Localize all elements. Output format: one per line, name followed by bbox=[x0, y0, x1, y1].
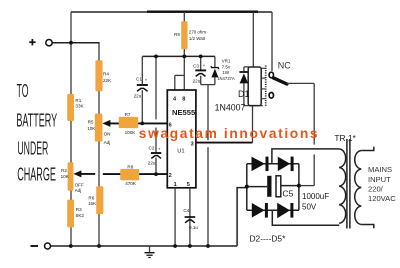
svg-text:C2: C2 bbox=[149, 145, 155, 150]
svg-text:5: 5 bbox=[187, 182, 190, 188]
svg-text:470K: 470K bbox=[125, 181, 137, 186]
svg-text:swagatam innovations: swagatam innovations bbox=[139, 126, 319, 141]
svg-text:R5: R5 bbox=[88, 120, 94, 125]
svg-text:NC: NC bbox=[278, 61, 291, 71]
svg-text:10K: 10K bbox=[61, 174, 70, 179]
svg-text:1N4007: 1N4007 bbox=[215, 103, 246, 113]
svg-text:ON: ON bbox=[104, 132, 111, 137]
svg-text:TR 1*: TR 1* bbox=[334, 133, 356, 143]
svg-text:C5: C5 bbox=[282, 189, 293, 199]
svg-text:U1: U1 bbox=[177, 148, 184, 154]
svg-text:C3: C3 bbox=[193, 63, 199, 68]
svg-text:22K: 22K bbox=[103, 78, 112, 83]
svg-text:+: + bbox=[145, 78, 148, 83]
svg-text:UNDER: UNDER bbox=[17, 139, 48, 159]
svg-text:22u: 22u bbox=[193, 78, 201, 83]
svg-text:R8: R8 bbox=[127, 164, 133, 169]
svg-text:R2: R2 bbox=[61, 168, 67, 173]
svg-text:R6: R6 bbox=[88, 196, 94, 201]
svg-text:8K2: 8K2 bbox=[76, 213, 85, 218]
svg-text:2: 2 bbox=[169, 173, 172, 179]
svg-text:7.5v: 7.5v bbox=[222, 64, 231, 69]
svg-text:50V: 50V bbox=[302, 202, 317, 211]
svg-text:INPUT: INPUT bbox=[368, 175, 391, 184]
svg-text:R4: R4 bbox=[103, 72, 109, 77]
svg-text:22u: 22u bbox=[148, 161, 156, 166]
svg-text:270 ohm: 270 ohm bbox=[189, 30, 206, 35]
svg-text:15K: 15K bbox=[88, 201, 97, 206]
svg-text:3: 3 bbox=[191, 141, 194, 147]
svg-text:C4: C4 bbox=[183, 208, 189, 213]
svg-text:1000uF: 1000uF bbox=[302, 192, 329, 201]
svg-text:R1: R1 bbox=[75, 98, 81, 103]
svg-text:0.1u: 0.1u bbox=[189, 225, 198, 230]
svg-text:33K: 33K bbox=[75, 104, 84, 109]
svg-text:22u: 22u bbox=[134, 93, 142, 98]
svg-text:Adj: Adj bbox=[75, 188, 82, 193]
svg-text:VR1: VR1 bbox=[222, 58, 231, 63]
svg-text:10K: 10K bbox=[87, 126, 96, 131]
svg-text:C1: C1 bbox=[136, 77, 142, 82]
svg-text:NE555: NE555 bbox=[172, 108, 196, 117]
svg-text:8: 8 bbox=[182, 96, 185, 102]
svg-text:R3: R3 bbox=[76, 207, 82, 212]
svg-text:1/2 Watt: 1/2 Watt bbox=[189, 36, 206, 41]
svg-text:D2----D5*: D2----D5* bbox=[250, 234, 287, 244]
svg-text:120VAC: 120VAC bbox=[368, 194, 396, 203]
svg-text:1: 1 bbox=[174, 182, 177, 188]
svg-text:TO: TO bbox=[17, 82, 29, 102]
svg-text:1W: 1W bbox=[222, 70, 230, 75]
svg-text:MAINS: MAINS bbox=[368, 165, 392, 174]
svg-text:D1: D1 bbox=[238, 89, 250, 99]
svg-text:R9: R9 bbox=[174, 32, 180, 37]
svg-text:Adj: Adj bbox=[104, 140, 111, 145]
svg-text:R7: R7 bbox=[125, 112, 131, 117]
svg-text:CHARGE: CHARGE bbox=[17, 165, 56, 185]
svg-text:OFF: OFF bbox=[75, 182, 84, 187]
svg-text:+: + bbox=[203, 63, 206, 68]
svg-text:100K: 100K bbox=[125, 130, 137, 135]
svg-text:BATTERY: BATTERY bbox=[16, 111, 57, 131]
svg-text:+: + bbox=[158, 146, 161, 151]
svg-text:220/: 220/ bbox=[368, 184, 384, 193]
svg-text:1N4737A: 1N4737A bbox=[217, 76, 235, 81]
